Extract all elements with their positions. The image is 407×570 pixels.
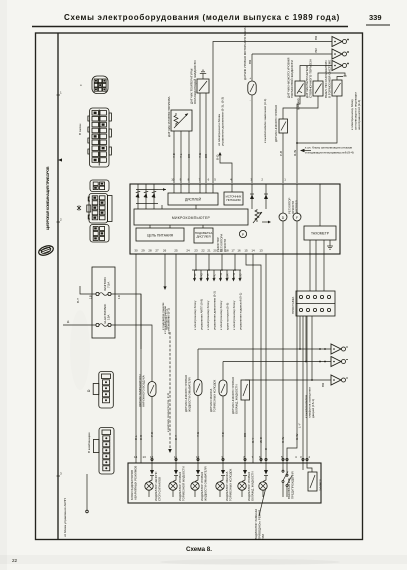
lamp L4 cell — [216, 463, 225, 497]
wire labels row — [134, 423, 301, 450]
ground at temp sender — [200, 70, 206, 79]
wire pin14 long — [252, 254, 254, 463]
buzzer — [307, 463, 317, 491]
ground amp G1 — [332, 37, 349, 47]
wire from F2 right to x152 — [111, 325, 152, 382]
tick node 4 on divider — [57, 475, 61, 477]
fuse box — [92, 267, 115, 338]
wire from B down with terminal — [86, 474, 88, 510]
ground amp G3 — [332, 61, 349, 71]
lamp D circle — [279, 184, 287, 254]
T4 ground amp — [198, 348, 331, 350]
terminal circles at box top — [260, 458, 308, 460]
warning indicator box — [128, 463, 321, 503]
arrow out — [262, 221, 270, 223]
connector D — [93, 372, 113, 409]
long verticals right — [282, 254, 284, 463]
fan bus — [192, 269, 241, 271]
diode rail — [136, 189, 158, 191]
wire pin13 long — [265, 254, 267, 463]
connector J1 round (top) — [92, 76, 108, 94]
diode D3 — [151, 184, 156, 209]
hazard switch contacts — [282, 463, 292, 497]
lamp P circle — [239, 230, 246, 237]
T6 ground amp — [245, 379, 331, 381]
speed sensor dashed arrow — [168, 332, 172, 453]
lamp L2 cell — [169, 463, 178, 497]
fuel level sender — [171, 110, 192, 131]
arrow node — [158, 189, 166, 191]
diode D1 — [135, 184, 140, 209]
pin numbers above bottom box — [134, 455, 311, 459]
scan noise — [0, 555, 407, 564]
connector A (B salon) — [88, 108, 112, 167]
connector C2 — [87, 194, 112, 224]
wire pin15 jog — [246, 254, 261, 463]
diode D4 — [250, 184, 254, 209]
fuse F1 IGNITION 7.5A — [96, 292, 99, 295]
power source block — [224, 192, 243, 205]
backlight block — [194, 228, 213, 243]
brake fluid level sensor S1 — [295, 81, 305, 96]
tick node 3 on divider — [57, 221, 61, 223]
wire from ECU jog — [218, 152, 221, 155]
vacuum switch S3 — [332, 80, 342, 96]
fan drop 5 — [220, 270, 222, 279]
wire stub — [302, 463, 304, 470]
oil sensor wires — [251, 54, 253, 81]
ground in box — [327, 240, 333, 249]
fan drop 1 — [194, 270, 196, 279]
label to fault display horizontal — [300, 149, 305, 153]
wire S3 top — [337, 77, 343, 81]
wire pin26 down arrow — [164, 254, 166, 287]
temp wires — [199, 93, 201, 183]
inner wires — [173, 184, 175, 193]
frame inner divider line — [57, 33, 59, 540]
junction S3 to wire — [297, 96, 337, 143]
fan drop 6 — [226, 270, 228, 279]
header underline — [32, 26, 348, 28]
lamp L3 cell — [191, 463, 200, 497]
wire top bus to G1 — [213, 42, 332, 184]
connector C3 — [90, 225, 109, 243]
terminal circles — [151, 458, 153, 460]
intermediate connector block — [296, 291, 335, 316]
wire y54 to G2 — [252, 53, 332, 55]
tick node 1 on divider — [57, 94, 61, 96]
tachometer block — [304, 184, 336, 240]
wires out of connector — [299, 316, 301, 349]
logo stamp — [37, 244, 54, 257]
bottom pin numbers — [134, 248, 263, 252]
parking brake switch S2 — [313, 81, 323, 96]
brake pad wear sensor oval — [219, 362, 227, 397]
wire S2 to S4 to cluster — [283, 96, 318, 119]
wire B-Y into fuse F1 — [80, 286, 96, 294]
pointer to belt indicator label — [259, 489, 266, 516]
ground amp G2 — [332, 49, 349, 59]
tach wires down — [309, 240, 311, 254]
fuse F2 ELECTRONIC 15A — [96, 323, 99, 326]
fan drop 2 — [200, 270, 202, 279]
lamp L5 cell — [238, 463, 247, 497]
oil level sensor oval — [248, 81, 256, 95]
display unit block — [168, 193, 218, 205]
fuel wires to cluster — [173, 131, 175, 183]
coolant temp sender — [197, 79, 209, 93]
lamp L6 cell — [259, 463, 268, 497]
wire S2 top — [318, 73, 345, 81]
digital cluster main box — [130, 184, 340, 254]
lamp L1 cell — [145, 463, 154, 497]
wire from F1 to node x141 — [111, 294, 141, 349]
washer fluid sensor oval — [194, 349, 202, 396]
wire A into fuse F2 — [63, 324, 96, 326]
resistor R1 — [253, 209, 262, 223]
fan drop 7 — [233, 270, 235, 279]
T5 ground amp — [223, 361, 331, 363]
pin numbers top row — [171, 178, 286, 182]
diode D5 — [264, 184, 268, 209]
wires into connector — [309, 254, 311, 291]
wire G3 to S1 — [300, 66, 332, 82]
power circuit block — [136, 228, 184, 241]
schematic outer frame — [36, 33, 363, 540]
fan drop 3 — [207, 270, 209, 279]
fan drop 8 — [239, 270, 241, 279]
long verticals left — [135, 254, 137, 463]
microcomputer block — [134, 209, 248, 225]
connector C1 — [90, 180, 109, 192]
tick node 2 on divider — [58, 158, 62, 161]
fan drop 4 — [213, 270, 215, 279]
diode D2 — [143, 184, 148, 209]
coolant level sensor rect — [241, 380, 250, 400]
outside air temp sensor oval — [148, 382, 156, 397]
lamp F circle — [293, 184, 301, 254]
asterisk mark — [77, 205, 81, 211]
connector B — [93, 428, 114, 475]
wire S1 bottom to cluster — [297, 96, 300, 183]
coolant low level sensor S4 — [279, 119, 288, 133]
